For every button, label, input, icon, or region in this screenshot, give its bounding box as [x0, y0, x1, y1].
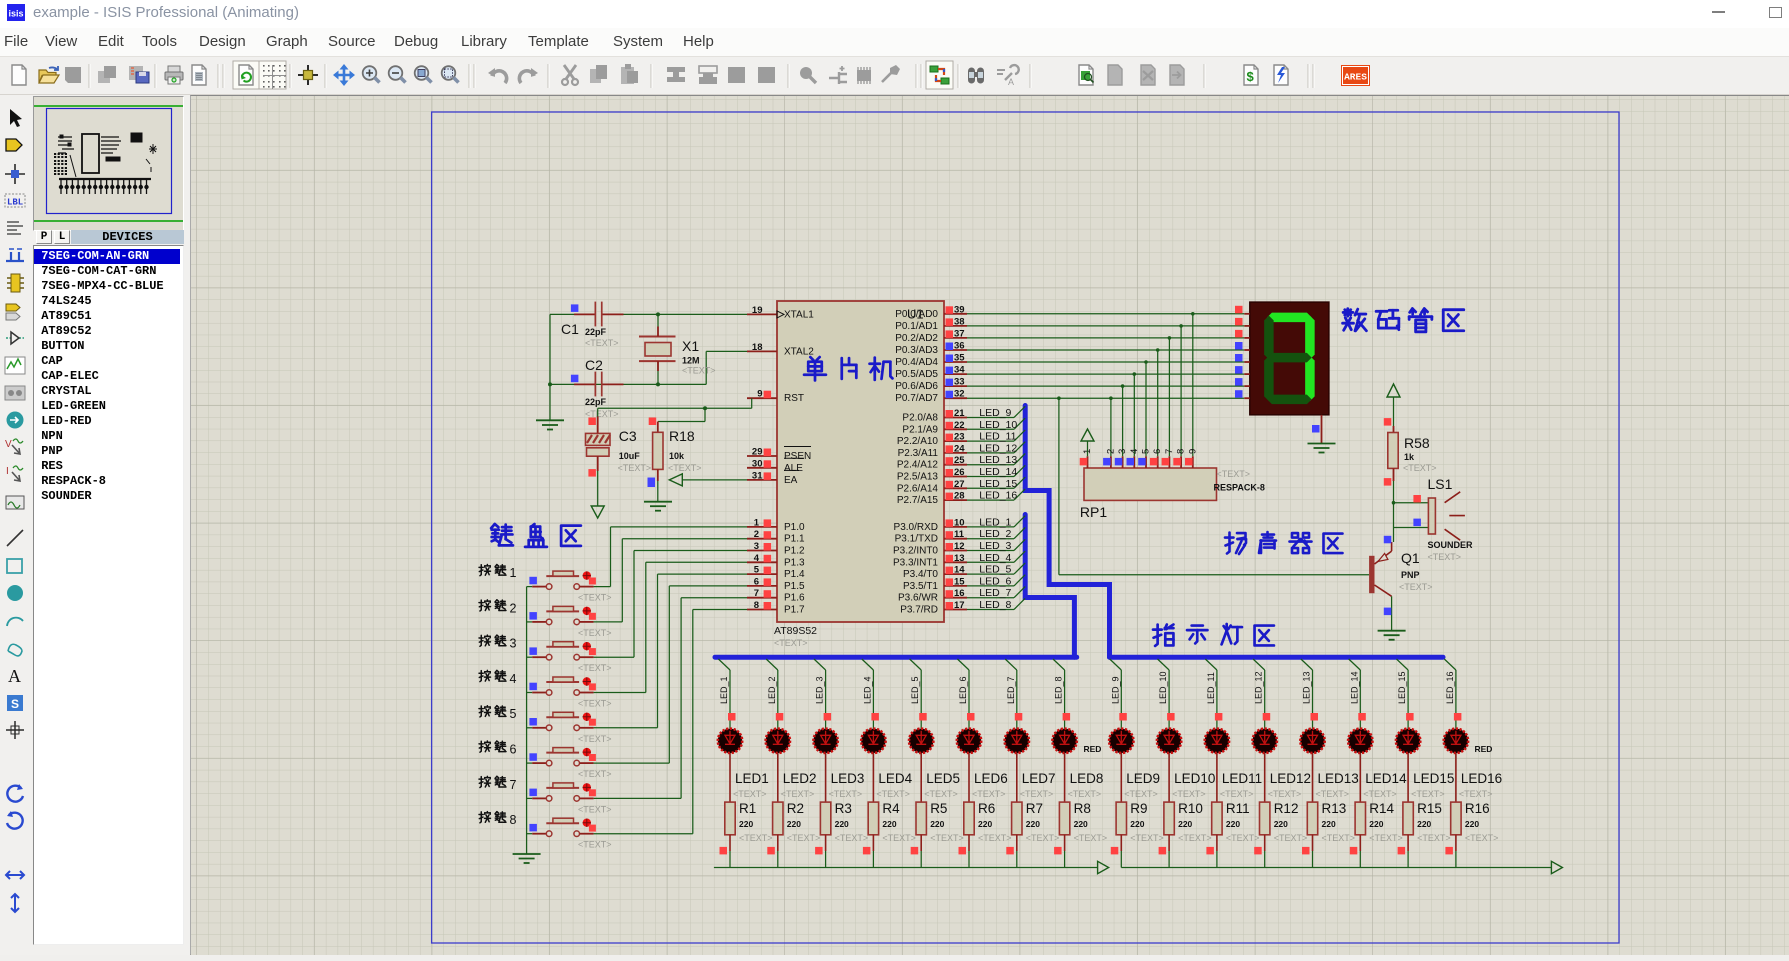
svg-text:4: 4 — [1129, 449, 1140, 454]
svg-text:LED_7: LED_7 — [1006, 676, 1016, 704]
R7 square — [1006, 847, 1014, 855]
button 按键7 — [527, 783, 596, 801]
svg-text:<TEXT>: <TEXT> — [924, 789, 958, 799]
RP1 pin 5 square — [1138, 458, 1146, 466]
LED6 text placeholder — [972, 789, 1006, 799]
button 按键5 — [527, 712, 596, 730]
svg-text:V: V — [5, 439, 12, 450]
U1 pin 33 P0.6/AD6 — [895, 377, 967, 393]
wire P3.4 LED_5 to bus — [967, 563, 1025, 574]
LED2 text placeholder — [781, 789, 815, 799]
display lead square seg 5 — [1235, 366, 1243, 374]
resistor R1 — [725, 802, 735, 851]
LED6 label — [974, 771, 1008, 786]
svg-text:<TEXT>: <TEXT> — [1226, 833, 1260, 843]
LED13 red square — [1311, 713, 1319, 721]
C2 labels — [585, 357, 619, 419]
svg-text:A: A — [8, 666, 21, 686]
sheet border frame — [432, 112, 1619, 943]
svg-text:<TEXT>: <TEXT> — [1363, 789, 1397, 799]
svg-text:R58: R58 — [1404, 435, 1430, 451]
svg-text:LED_6: LED_6 — [979, 575, 1011, 587]
svg-text:220: 220 — [1178, 819, 1192, 829]
svg-text:P3.3/INT1: P3.3/INT1 — [893, 557, 938, 568]
svg-text:<TEXT>: <TEXT> — [1068, 789, 1102, 799]
svg-text:<TEXT>: <TEXT> — [578, 734, 612, 744]
svg-text:<TEXT>: <TEXT> — [1220, 789, 1254, 799]
svg-text:<TEXT>: <TEXT> — [1316, 789, 1350, 799]
svg-text:I: I — [6, 466, 9, 477]
node label LED_6 vertical — [958, 676, 968, 704]
resistor R12 — [1260, 802, 1270, 851]
svg-text:LED16: LED16 — [1461, 771, 1502, 786]
LED D5 — [909, 729, 933, 753]
svg-text:<TEXT>: <TEXT> — [578, 593, 612, 603]
svg-text:isis: isis — [8, 9, 23, 19]
label 扬声器区 — [1225, 532, 1343, 554]
svg-text:LED_4: LED_4 — [979, 552, 1011, 564]
svg-text:<TEXT>: <TEXT> — [787, 833, 821, 843]
LED8 red square — [1063, 713, 1071, 721]
svg-text:R4: R4 — [882, 801, 900, 816]
svg-text:C1: C1 — [561, 321, 579, 337]
U1 pin 12 P3.2/INT0 — [893, 541, 967, 557]
capacitor C1 — [574, 302, 623, 327]
wire bus tap LED14 — [1349, 659, 1361, 728]
button 按键2 — [527, 606, 596, 624]
wire LED12 to R12 — [1264, 753, 1266, 802]
button 8 label 按键8 — [479, 812, 516, 827]
svg-text:LED_12: LED_12 — [1254, 671, 1264, 704]
svg-text:LED_5: LED_5 — [979, 564, 1011, 576]
U1 pin 30 ALE — [747, 458, 804, 474]
node LED_2 — [979, 528, 1011, 540]
svg-text:PSEN: PSEN — [784, 451, 811, 462]
wire R15 to rail — [1407, 851, 1409, 868]
wire LED15 to R15 — [1407, 753, 1409, 802]
svg-text:220: 220 — [930, 819, 944, 829]
node label LED_12 vertical — [1254, 671, 1264, 704]
svg-text:<TEXT>: <TEXT> — [1020, 789, 1054, 799]
wire bus tap LED15 — [1397, 659, 1409, 728]
LED6 red square — [967, 713, 975, 721]
LED3 red square — [824, 713, 832, 721]
svg-text:<TEXT>: <TEXT> — [618, 463, 652, 473]
wire Q1 collector to ground — [1391, 596, 1393, 630]
svg-text:7: 7 — [1164, 449, 1175, 454]
overview minimap — [33, 96, 184, 231]
button 按键4 — [527, 677, 596, 695]
R8 square — [1054, 847, 1062, 855]
wire button 6 to P1.5 — [594, 586, 747, 763]
svg-text:39: 39 — [954, 304, 965, 315]
U1 pin 32 P0.7/AD7 — [895, 389, 967, 405]
svg-text:LED_14: LED_14 — [1349, 671, 1359, 704]
svg-text:<TEXT>: <TEXT> — [578, 699, 612, 709]
svg-text:36: 36 — [954, 341, 965, 352]
wire bus tap LED11 — [1205, 659, 1217, 728]
U1 pin 28 P2.7/A15 — [897, 491, 967, 507]
wire XTAL2 net — [548, 351, 747, 386]
U1 pin 22 P2.1/A9 — [902, 420, 967, 436]
svg-text:8: 8 — [510, 813, 517, 827]
R11 labels — [1226, 801, 1260, 843]
svg-text:R10: R10 — [1178, 801, 1203, 816]
svg-text:P2.2/A10: P2.2/A10 — [897, 436, 939, 447]
svg-text:RST: RST — [784, 393, 804, 404]
U1 pin 25 P2.4/A12 — [897, 455, 967, 471]
Q1 emitter blue square — [1384, 536, 1392, 544]
svg-text:LED_15: LED_15 — [1397, 671, 1407, 704]
svg-text:<TEXT>: <TEXT> — [668, 463, 702, 473]
window maximize button — [1769, 7, 1782, 18]
wire bus tap LED10 — [1158, 659, 1170, 728]
LED D6 — [957, 729, 981, 753]
RP1 pin 2 square — [1103, 458, 1111, 466]
C1 labels — [561, 321, 619, 348]
svg-text:LED_10: LED_10 — [1158, 671, 1168, 704]
svg-text:P1.7: P1.7 — [784, 605, 805, 616]
svg-text:P0.7/AD7: P0.7/AD7 — [895, 393, 938, 404]
svg-text:<TEXT>: <TEXT> — [1124, 789, 1158, 799]
LED D11 — [1205, 729, 1229, 753]
svg-text:RED: RED — [1084, 744, 1102, 754]
wire bus tap LED8 — [1053, 659, 1065, 728]
node label LED_10 vertical — [1158, 671, 1168, 704]
svg-text:R15: R15 — [1417, 801, 1442, 816]
svg-text:LED_3: LED_3 — [815, 676, 825, 704]
svg-text:P0.6/AD6: P0.6/AD6 — [895, 381, 938, 392]
button 按键8 — [527, 818, 596, 836]
U1 pin 26 P2.5/A13 — [897, 467, 967, 483]
EA blue square — [648, 480, 656, 488]
svg-text:P3.4/T0: P3.4/T0 — [903, 569, 938, 580]
node label LED_16 vertical — [1445, 671, 1455, 704]
wire R1 to rail — [729, 851, 731, 868]
svg-text:R7: R7 — [1026, 801, 1043, 816]
wire LED9 to R9 — [1120, 753, 1122, 802]
wire P0.7 branch to Q1 base — [1057, 396, 1369, 574]
wire R6 to rail — [968, 851, 970, 868]
svg-text:<TEXT>: <TEXT> — [1026, 833, 1060, 843]
wire bus tap LED6 — [957, 659, 969, 728]
node label LED_14 vertical — [1349, 671, 1359, 704]
node LED_1 — [979, 516, 1011, 528]
R3 square — [815, 847, 823, 855]
node LED_10 — [979, 419, 1017, 431]
LED11 red square — [1215, 713, 1223, 721]
LED D15 — [1396, 729, 1420, 753]
button 4 text placeholder — [578, 699, 612, 709]
wire EA net — [669, 474, 747, 486]
LED D8 — [1052, 729, 1076, 753]
resistor pack RP1 body — [1084, 456, 1217, 500]
svg-text:2: 2 — [1105, 449, 1116, 454]
U1 pin 7 P1.6 — [747, 588, 805, 604]
button 按键6 — [527, 748, 596, 766]
resistor R4 — [868, 802, 878, 851]
wire R14 to rail — [1359, 851, 1361, 868]
U1 pin 9 RST — [747, 389, 804, 405]
R8 labels — [1074, 801, 1108, 843]
R10 labels — [1178, 801, 1212, 843]
wire P0.0 net to display — [967, 312, 1244, 456]
wire P0.5 net to display — [967, 372, 1244, 456]
R5 labels — [930, 801, 964, 843]
svg-text:XTAL2: XTAL2 — [784, 346, 814, 357]
svg-text:6: 6 — [1152, 449, 1163, 454]
button 8 blue square — [529, 824, 537, 832]
svg-text:9: 9 — [1187, 449, 1198, 454]
button 7 text placeholder — [578, 804, 612, 814]
node LED_6 — [979, 575, 1011, 587]
svg-text:P2.7/A15: P2.7/A15 — [897, 495, 939, 506]
sounder LS1 — [1428, 492, 1465, 540]
RP1 pin 4 number — [1129, 449, 1140, 454]
svg-text:<TEXT>: <TEXT> — [1322, 833, 1356, 843]
svg-text:12: 12 — [954, 541, 965, 552]
button 按键1 — [527, 571, 596, 589]
wire C3 to arrow — [597, 471, 599, 506]
svg-text:24: 24 — [954, 443, 965, 454]
wire P3.1 LED_2 to bus — [967, 528, 1025, 539]
LED1 label — [735, 771, 769, 786]
resistor R5 — [916, 802, 926, 851]
Q1 labels — [1399, 550, 1433, 592]
svg-text:LED4: LED4 — [878, 771, 912, 786]
wire bus tap LED2 — [766, 659, 778, 728]
node label LED_11 vertical — [1206, 672, 1216, 704]
svg-text:P1.0: P1.0 — [784, 522, 805, 533]
RP1 value text — [1214, 469, 1265, 493]
wire R13 to rail — [1312, 851, 1314, 868]
wire LED2 to R2 — [777, 753, 779, 802]
svg-text:2: 2 — [754, 529, 759, 540]
U1 pin 36 P0.3/AD3 — [895, 341, 967, 357]
svg-text:LED_13: LED_13 — [979, 454, 1017, 466]
LED8 label — [1070, 771, 1104, 786]
svg-text:34: 34 — [954, 365, 965, 376]
svg-text:RP1: RP1 — [1080, 504, 1107, 520]
LED15 red square — [1406, 713, 1414, 721]
U1 pin 8 P1.7 — [747, 600, 805, 616]
display leads — [1244, 314, 1250, 398]
display lead square seg 7 — [1235, 390, 1243, 398]
svg-text:<TEXT>: <TEXT> — [876, 789, 910, 799]
R12 labels — [1274, 801, 1308, 843]
U1 pin 39 P0.0/AD0 — [895, 304, 967, 320]
LED2 red square — [776, 713, 784, 721]
svg-text:P2.1/A9: P2.1/A9 — [902, 424, 938, 435]
node label LED_7 vertical — [1006, 676, 1016, 704]
R4 labels — [882, 801, 916, 843]
svg-text:P1.6: P1.6 — [784, 593, 805, 604]
svg-text:LED13: LED13 — [1318, 771, 1359, 786]
RP1 pin 7 number — [1164, 449, 1175, 454]
svg-text:<TEXT>: <TEXT> — [1130, 833, 1164, 843]
wire LED14 to R14 — [1359, 753, 1361, 802]
svg-text:LED5: LED5 — [926, 771, 960, 786]
svg-text:7: 7 — [754, 588, 759, 599]
svg-text:P0.1/AD1: P0.1/AD1 — [895, 321, 938, 332]
LED D10 — [1157, 729, 1181, 753]
svg-text:220: 220 — [1369, 819, 1383, 829]
svg-text:<TEXT>: <TEXT> — [882, 833, 916, 843]
U1 pin 10 P3.0/RXD — [894, 517, 967, 533]
R58 top square — [1384, 418, 1392, 426]
label keyboard area 键盘区 — [491, 524, 581, 547]
svg-text:R5: R5 — [930, 801, 947, 816]
R14 labels — [1369, 801, 1403, 843]
LED D1 — [718, 729, 742, 753]
svg-text:<TEXT>: <TEXT> — [1399, 582, 1433, 592]
wire button 8 to P1.7 — [594, 610, 747, 834]
svg-text:13: 13 — [954, 553, 965, 564]
RP1 pin 3 square — [1115, 458, 1123, 466]
bus bottom right segment — [1110, 655, 1444, 660]
svg-text:18: 18 — [752, 342, 763, 353]
svg-text:LED_8: LED_8 — [1054, 676, 1064, 704]
svg-text:<TEXT>: <TEXT> — [1172, 789, 1206, 799]
svg-text:P0.5/AD5: P0.5/AD5 — [895, 369, 938, 380]
svg-text:R8: R8 — [1074, 801, 1091, 816]
LED14 label — [1365, 771, 1407, 786]
wire R10 to rail — [1168, 851, 1170, 868]
wire P2.4 LED_13 to bus — [967, 454, 1025, 465]
capacitor C3 10uF — [586, 417, 611, 472]
node label LED_5 vertical — [910, 676, 920, 704]
button 5 blue square — [529, 718, 537, 726]
ISIS application icon — [7, 4, 25, 21]
LED5 label — [926, 771, 960, 786]
button 2 blue square — [529, 612, 537, 620]
wire sounder to Q1 emitter — [1392, 528, 1394, 552]
svg-text:P1.3: P1.3 — [784, 557, 805, 568]
button 2 text placeholder — [578, 628, 612, 638]
svg-text:$: $ — [1247, 69, 1255, 84]
ground arrow (C3) — [591, 506, 604, 518]
button 1 blue square — [529, 577, 537, 585]
R9 labels — [1130, 801, 1164, 843]
svg-text:31: 31 — [752, 470, 763, 481]
svg-text:LED_1: LED_1 — [719, 676, 729, 704]
svg-text:37: 37 — [954, 328, 965, 339]
svg-text:220: 220 — [1226, 819, 1240, 829]
button 3 label 按键3 — [479, 635, 516, 650]
LED9 red square — [1119, 713, 1127, 721]
svg-text:LED15: LED15 — [1413, 771, 1454, 786]
svg-text:10k: 10k — [669, 451, 685, 461]
svg-text:P1.4: P1.4 — [784, 569, 805, 580]
display lead square seg 4 — [1235, 354, 1243, 362]
R2 labels — [787, 801, 821, 843]
ground (speaker) — [1378, 631, 1406, 640]
wire button 7 to P1.6 — [594, 598, 747, 799]
resistor R14 — [1355, 802, 1365, 851]
resistor R58 — [1388, 426, 1398, 481]
svg-text:22pF: 22pF — [585, 397, 607, 407]
node label LED_15 vertical — [1397, 671, 1407, 704]
svg-text:<TEXT>: <TEXT> — [578, 804, 612, 814]
svg-text:7: 7 — [510, 778, 517, 792]
svg-text:LED12: LED12 — [1270, 771, 1311, 786]
RP1 pin 2 number — [1105, 449, 1116, 454]
svg-text:<TEXT>: <TEXT> — [578, 663, 612, 673]
svg-text:LED_14: LED_14 — [979, 466, 1017, 478]
svg-text:<TEXT>: <TEXT> — [835, 833, 869, 843]
RP1 pin 1 number — [1082, 449, 1093, 454]
svg-text:C3: C3 — [619, 428, 637, 444]
svg-text:R14: R14 — [1369, 801, 1394, 816]
svg-text:LED_2: LED_2 — [979, 528, 1011, 540]
wire R12 to rail — [1264, 851, 1266, 868]
LED11 label — [1222, 771, 1262, 786]
button 6 label 按键6 — [479, 741, 516, 756]
node label LED_4 vertical — [862, 676, 872, 704]
svg-text:LED_5: LED_5 — [910, 676, 920, 704]
wire LED11 to R11 — [1216, 753, 1218, 802]
node LED_14 — [979, 466, 1017, 478]
node label LED_9 vertical — [1110, 676, 1120, 704]
node LED_9 — [979, 407, 1011, 419]
R4 square — [863, 847, 871, 855]
7-segment display (digit 7) — [1250, 302, 1329, 415]
svg-text:R9: R9 — [1130, 801, 1147, 816]
resistor R3 — [820, 802, 830, 851]
wire R9 to rail — [1120, 851, 1122, 868]
svg-text:LBL: LBL — [7, 198, 23, 208]
wire P2.2 LED_11 to bus — [967, 430, 1025, 441]
RP1 pin 1 square — [1080, 458, 1088, 466]
LED D7 — [1005, 729, 1029, 753]
svg-text:LED6: LED6 — [974, 771, 1008, 786]
svg-text:220: 220 — [1417, 819, 1431, 829]
svg-text:19: 19 — [752, 305, 763, 316]
svg-text:P0.3/AD3: P0.3/AD3 — [895, 345, 938, 356]
RED label LED16 — [1475, 744, 1493, 754]
ground (display) — [1308, 444, 1336, 453]
U1 pin 3 P1.2 — [747, 541, 805, 557]
wire indicator rail right — [1121, 861, 1562, 873]
button 按键3 — [527, 642, 596, 660]
node LED_7 — [979, 587, 1011, 599]
svg-text:220: 220 — [1026, 819, 1040, 829]
resistor R16 — [1451, 802, 1461, 851]
svg-text:23: 23 — [954, 432, 965, 443]
svg-text:P1.1: P1.1 — [784, 534, 805, 545]
svg-text:P2.6/A14: P2.6/A14 — [897, 483, 939, 494]
R6 labels — [978, 801, 1012, 843]
svg-text:<TEXT>: <TEXT> — [1178, 833, 1212, 843]
LED5 red square — [919, 713, 927, 721]
resistor R13 — [1307, 802, 1317, 851]
wire R16 to rail — [1455, 851, 1457, 868]
wire LED1 to R1 — [729, 753, 731, 802]
svg-text:<TEXT>: <TEXT> — [1274, 833, 1308, 843]
R13 labels — [1322, 801, 1356, 843]
wire P3.0 LED_1 to bus — [967, 516, 1025, 527]
svg-text:R18: R18 — [669, 428, 695, 444]
LED11 text placeholder — [1220, 789, 1254, 799]
svg-text:220: 220 — [739, 819, 753, 829]
svg-text:ARES: ARES — [1344, 72, 1367, 83]
node LED_12 — [979, 442, 1017, 454]
button 6 blue square — [529, 753, 537, 761]
wire P3.6 LED_7 to bus — [967, 587, 1025, 598]
svg-text:LED10: LED10 — [1174, 771, 1215, 786]
wire P3.3 LED_4 to bus — [967, 551, 1025, 562]
transistor Q1 PNP — [1369, 551, 1392, 596]
